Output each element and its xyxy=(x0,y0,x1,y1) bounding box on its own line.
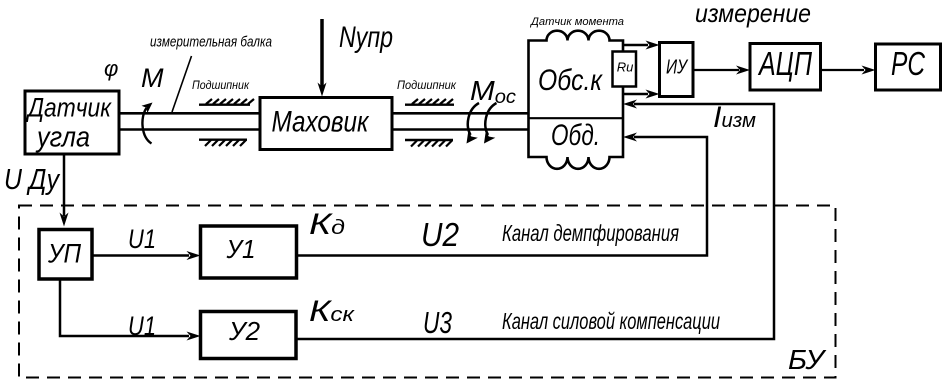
wire shaft right top xyxy=(392,112,529,115)
label U Ду xyxy=(4,164,60,196)
svg-text:УП: УП xyxy=(47,239,81,269)
wire АЦП to РС xyxy=(821,66,876,75)
svg-text:ИУ: ИУ xyxy=(666,57,689,79)
svg-text:угла: угла xyxy=(35,122,90,154)
arrow arc Мос 2 xyxy=(484,103,497,144)
block АЦП (ADC) xyxy=(750,44,821,91)
svg-text:Rи: Rи xyxy=(617,60,634,75)
label Подшипник right xyxy=(397,78,457,92)
svg-text:измерение: измерение xyxy=(695,0,811,28)
block У2 (amplifier 2) xyxy=(201,312,297,359)
block ИУ (measuring amplifier) xyxy=(660,43,694,97)
block РС (PC) xyxy=(876,44,941,90)
svg-text:АЦП: АЦП xyxy=(757,45,812,82)
label Датчик момента xyxy=(529,16,624,28)
dashed box БУ (control unit) xyxy=(19,206,836,378)
wire shaft left top xyxy=(119,112,260,115)
arrow arc M direction xyxy=(142,103,153,144)
svg-text:φ: φ xyxy=(104,56,118,81)
arrow arc Мос 1 xyxy=(467,103,480,144)
block Датчик момента (torque sensor, scalloped outline) xyxy=(529,31,624,169)
wire ИУ to АЦП xyxy=(694,66,751,75)
bearing pad left top xyxy=(199,99,254,105)
svg-text:Датчик: Датчик xyxy=(25,93,112,123)
svg-text:БУ: БУ xyxy=(788,344,827,375)
label измерение xyxy=(695,0,811,28)
winding Обс.к label xyxy=(538,64,604,97)
svg-text:Подшипник: Подшипник xyxy=(192,78,250,92)
winding Обд label xyxy=(551,119,600,152)
label U3 xyxy=(423,305,452,340)
wire shaft left bottom xyxy=(119,128,260,131)
label Кск xyxy=(309,295,356,328)
bearing pad left bottom xyxy=(199,140,247,146)
wire U3 return to Обс.к (force compensation) xyxy=(296,100,774,340)
svg-text:Подшипник: Подшипник xyxy=(397,78,457,92)
svg-text:М: М xyxy=(141,63,164,93)
wire sensor to ИУ top xyxy=(623,41,660,50)
label Мос (feedback torque) xyxy=(470,75,517,108)
svg-text:U1: U1 xyxy=(128,224,156,254)
svg-text:Обд.: Обд. xyxy=(551,119,600,152)
wire УП to У2 xyxy=(60,281,201,341)
label U1 lower xyxy=(128,311,156,341)
wire shaft right bottom xyxy=(392,128,529,131)
svg-text:U Ду: U Ду xyxy=(4,164,60,196)
label Iизм xyxy=(713,101,756,134)
svg-text:Канал демпфирования: Канал демпфирования xyxy=(502,220,679,246)
svg-text:Маховик: Маховик xyxy=(272,106,370,139)
label Подшипник left xyxy=(192,78,250,92)
svg-text:Датчик момента: Датчик момента xyxy=(529,16,624,28)
svg-text:У2: У2 xyxy=(228,316,261,346)
svg-text:РС: РС xyxy=(891,45,926,82)
svg-text:У1: У1 xyxy=(226,234,256,264)
wire sensor to ИУ bottom xyxy=(623,90,660,99)
label БУ xyxy=(788,344,827,375)
label M (torque) xyxy=(141,63,164,93)
block Маховик (flywheel) xyxy=(260,98,392,150)
label U2 xyxy=(421,216,459,253)
svg-text:измерительная балка: измерительная балка xyxy=(150,34,272,51)
block У1 (amplifier 1) xyxy=(201,226,297,278)
wire Датчик угла to УП xyxy=(60,155,69,227)
resistor Rи xyxy=(613,52,637,87)
bearing pad right bottom xyxy=(405,140,453,147)
svg-text:Nупр: Nупр xyxy=(339,21,393,54)
label Кд xyxy=(309,208,345,241)
label Канал силовой компенсации xyxy=(502,308,720,334)
label измерительная балка with leader line xyxy=(150,34,272,113)
label Канал демпфирования xyxy=(502,220,679,246)
svg-text:U1: U1 xyxy=(128,311,156,341)
label φ (angle) xyxy=(104,56,118,81)
svg-text:U3: U3 xyxy=(423,305,452,340)
bearing pad right top xyxy=(405,99,454,105)
label U1 upper xyxy=(128,224,156,254)
arrow Nупр input xyxy=(318,19,394,97)
wire U2 return to Обд (damping) xyxy=(297,133,707,256)
svg-text:U2: U2 xyxy=(421,216,459,253)
block Датчик угла (angle sensor) xyxy=(25,91,119,154)
wire УП to У1 xyxy=(93,251,201,260)
svg-text:Канал силовой компенсации: Канал силовой компенсации xyxy=(502,308,720,334)
svg-text:Обс.к: Обс.к xyxy=(538,64,604,97)
block УП (preamplifier) xyxy=(39,230,92,280)
